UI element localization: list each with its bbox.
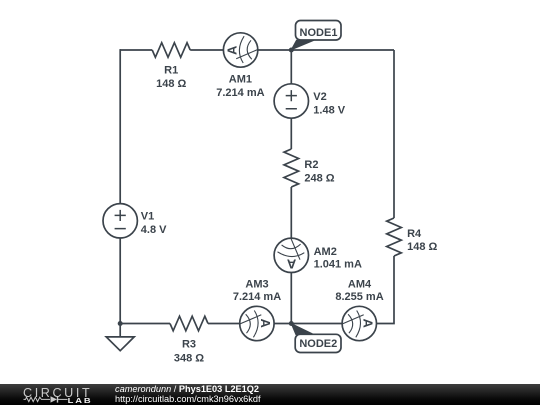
svg-text:248 Ω: 248 Ω — [304, 172, 334, 184]
svg-text:348 Ω: 348 Ω — [174, 353, 204, 365]
wire node2 to AM3 — [274, 323, 291, 325]
svg-text:NODE2: NODE2 — [299, 338, 337, 350]
junction dot at ground node — [118, 321, 123, 326]
voltage source V1 — [103, 204, 137, 238]
resistor R4 (vertical) — [387, 218, 402, 256]
svg-text:148 Ω: 148 Ω — [156, 78, 186, 90]
wire R1 to AM1 — [190, 49, 223, 51]
wire AM1 to node1 junction — [258, 49, 292, 51]
junction dot at node NODE1 — [289, 48, 294, 53]
ground — [106, 337, 134, 351]
svg-text:R1: R1 — [164, 65, 178, 77]
ammeter AM3 — [240, 306, 274, 340]
wire V2 bottom to R2 top — [290, 118, 292, 149]
svg-text:R4: R4 — [407, 228, 422, 240]
svg-text:1.48 V: 1.48 V — [313, 105, 345, 117]
wire R4 to bottom-right corner to AM4 — [377, 256, 395, 324]
svg-text:AM4: AM4 — [348, 279, 372, 291]
circuitlab logo — [0, 384, 110, 405]
junction dot at node NODE2 — [289, 321, 294, 326]
svg-text:R3: R3 — [182, 338, 196, 350]
voltage source V2 — [274, 84, 308, 118]
wire AM2 bottom to node2 — [290, 273, 292, 324]
ammeter AM1 — [223, 33, 257, 67]
svg-text:4.8 V: 4.8 V — [141, 224, 167, 236]
wire AM3 to R3 — [208, 323, 240, 325]
footer bar — [0, 384, 540, 405]
wire top-left: corner (120,50) to R1 — [120, 49, 152, 51]
svg-text:7.214 mA: 7.214 mA — [233, 291, 281, 303]
wire node1 to top-right corner — [291, 49, 394, 51]
wire R2 bottom to AM2 top — [290, 187, 292, 238]
NODE1 callout — [291, 21, 341, 50]
svg-text:148 Ω: 148 Ω — [407, 241, 437, 253]
svg-text:NODE1: NODE1 — [300, 27, 338, 39]
footer text — [115, 385, 261, 405]
resistor R2 (vertical) — [284, 149, 299, 187]
svg-text:V2: V2 — [313, 91, 326, 103]
svg-text:8.255 mA: 8.255 mA — [335, 291, 383, 303]
svg-text:AM2: AM2 — [314, 246, 337, 258]
wire left side: junction up to V1 bottom — [119, 238, 121, 324]
ammeter AM2 — [274, 238, 308, 272]
svg-text:LAB: LAB — [68, 396, 93, 405]
wire R3 to bottom-left junction — [120, 323, 170, 325]
svg-text:V1: V1 — [141, 211, 154, 223]
resistor R1 — [152, 43, 190, 58]
ammeter AM4 — [342, 306, 376, 340]
wire AM4 to node2 junction — [291, 323, 342, 325]
svg-text:AM3: AM3 — [245, 279, 268, 291]
wire node1 down to V2 top — [290, 50, 292, 84]
svg-text:1.041 mA: 1.041 mA — [314, 258, 362, 270]
ground stub — [119, 324, 121, 337]
resistor R3 — [170, 316, 208, 331]
wire V1 top up to top-left corner — [119, 50, 122, 204]
svg-text:7.214 mA: 7.214 mA — [216, 87, 264, 99]
svg-text:R2: R2 — [304, 159, 318, 171]
wire right side down to R4 — [393, 50, 395, 218]
svg-text:AM1: AM1 — [229, 74, 252, 86]
NODE2 callout — [291, 324, 341, 353]
